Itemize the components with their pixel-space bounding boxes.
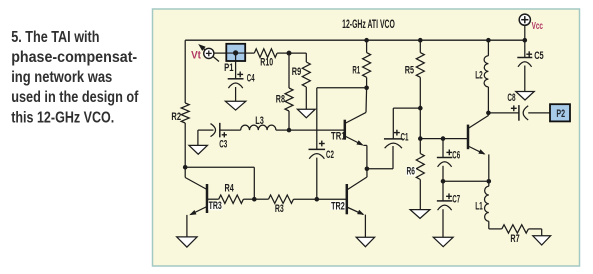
wire node-R3 bbox=[254, 198, 268, 200]
wire Vt-P1 bbox=[214, 52, 226, 54]
ground under R7 bbox=[533, 236, 551, 245]
label P1 bbox=[224, 62, 233, 74]
ground under R6 bbox=[410, 210, 430, 219]
node C6 top bbox=[441, 136, 446, 141]
svg-text:C4: C4 bbox=[247, 72, 255, 84]
svg-text:R1: R1 bbox=[352, 65, 360, 77]
node L2 top bbox=[486, 38, 491, 43]
svg-text:R6: R6 bbox=[407, 166, 415, 178]
capacitor C8 bbox=[511, 105, 528, 121]
wire Q4coll-C8 bbox=[488, 112, 519, 114]
node R1 bottom bbox=[364, 86, 369, 91]
label C7 bbox=[452, 194, 460, 206]
resistor R6 bbox=[416, 154, 424, 180]
label C3 bbox=[219, 138, 227, 150]
label R10 bbox=[260, 56, 273, 68]
wire R3-TR2 bbox=[294, 198, 347, 200]
resistor R3 bbox=[269, 195, 294, 203]
source Vt variable arrow bbox=[198, 44, 219, 62]
label TR2 bbox=[331, 200, 345, 212]
node R5-C1 bbox=[418, 106, 423, 111]
wire C3-L3 bbox=[220, 129, 241, 131]
label R9 bbox=[292, 66, 301, 78]
wire R6-gnd bbox=[419, 180, 421, 210]
node Q4 collector bbox=[486, 111, 491, 116]
resistor R10 bbox=[254, 49, 277, 58]
label R5 bbox=[405, 65, 414, 77]
label C6 bbox=[452, 149, 460, 161]
node C2 bottom bbox=[315, 197, 320, 202]
wire R2-node bbox=[184, 123, 186, 167]
transistor Q4 bbox=[468, 113, 489, 181]
port P1 bbox=[226, 44, 245, 61]
wire R2node-R4R3node bbox=[185, 167, 254, 199]
svg-text:R8: R8 bbox=[276, 94, 285, 106]
svg-text:R2: R2 bbox=[171, 111, 181, 123]
svg-text:C7: C7 bbox=[452, 194, 460, 206]
svg-text:L1: L1 bbox=[475, 201, 483, 213]
label R6 bbox=[407, 166, 415, 178]
wire R4-node bbox=[243, 198, 254, 200]
label C5 bbox=[534, 50, 544, 62]
label L2 bbox=[475, 69, 483, 81]
resistor R8 bbox=[285, 53, 293, 130]
svg-text:C6: C6 bbox=[452, 149, 460, 161]
wire L1-R7 bbox=[489, 228, 502, 230]
node R10-R9-R8 bbox=[287, 51, 292, 56]
label R7 bbox=[510, 233, 519, 245]
label TR1 bbox=[331, 131, 346, 143]
wire R10-node bbox=[277, 52, 289, 54]
svg-text:TR1: TR1 bbox=[331, 131, 346, 143]
svg-text:TR3: TR3 bbox=[209, 200, 222, 212]
transistor TR2 bbox=[347, 169, 367, 238]
wire Vcc supply rail bbox=[185, 39, 525, 41]
resistor R7 bbox=[502, 225, 529, 233]
ground under R9 bbox=[297, 109, 315, 118]
resistor R1 bbox=[363, 40, 371, 88]
wire R6node-C6 bbox=[420, 138, 443, 140]
svg-text:used in the design of: used in the design of bbox=[11, 89, 139, 106]
svg-text:phase-compensat-: phase-compensat- bbox=[11, 49, 137, 66]
svg-text:C5: C5 bbox=[534, 50, 544, 62]
svg-text:C2: C2 bbox=[326, 149, 334, 161]
svg-text:R3: R3 bbox=[275, 203, 284, 215]
wire R9-gnd bbox=[305, 87, 307, 109]
svg-text:5. The TAI with: 5. The TAI with bbox=[11, 29, 99, 46]
label C8 bbox=[507, 92, 515, 104]
node R4-R3 bbox=[252, 197, 257, 202]
label TR3 box bbox=[208, 201, 222, 210]
label R8 bbox=[276, 94, 285, 106]
resistor R4 bbox=[219, 195, 244, 203]
inductor L2 bbox=[484, 40, 488, 113]
svg-text:C3: C3 bbox=[219, 138, 227, 150]
ground under C5 bbox=[516, 92, 534, 101]
capacitor C7 bbox=[437, 181, 453, 237]
capacitor C3 bbox=[211, 123, 227, 138]
label C2 bbox=[326, 149, 334, 161]
wire TR3-R4 bbox=[207, 198, 219, 200]
wire R7-gnd bbox=[528, 229, 541, 236]
node R5 top bbox=[418, 38, 423, 43]
svg-text:TR2: TR2 bbox=[331, 200, 345, 212]
label R2 bbox=[171, 111, 181, 123]
node R1 top bbox=[364, 38, 369, 43]
node Q4 emitter / L1 top bbox=[487, 179, 492, 184]
svg-text:12-GHz ATI VCO: 12-GHz ATI VCO bbox=[342, 17, 395, 31]
svg-text:L2: L2 bbox=[475, 69, 483, 81]
svg-text:this 12-GHz VCO.: this 12-GHz VCO. bbox=[11, 109, 114, 126]
wire C6node-Q4base bbox=[443, 138, 468, 140]
svg-text:Vt: Vt bbox=[191, 50, 201, 62]
svg-text:C1: C1 bbox=[401, 131, 409, 143]
wire L3-node bbox=[276, 129, 289, 131]
label R6 box bbox=[406, 167, 416, 176]
transistor TR1 bbox=[345, 88, 367, 169]
junction Vcc-rail bbox=[523, 38, 528, 43]
ground under C7 bbox=[433, 237, 453, 246]
wire R1-C2 bbox=[317, 88, 367, 150]
wire rail-R2 bbox=[184, 40, 186, 103]
resistor R5 bbox=[416, 40, 424, 108]
label C1 bbox=[401, 131, 409, 143]
node L3-R8-TR1base bbox=[287, 128, 292, 133]
label R4 bbox=[225, 183, 235, 195]
ground under TR2 bbox=[356, 237, 374, 246]
wire C1-R5 bbox=[393, 107, 420, 109]
source Vt circle bbox=[204, 48, 214, 58]
wire TR1em-C1 bbox=[367, 146, 393, 169]
label Vt bbox=[191, 50, 201, 62]
svg-text:Vcc: Vcc bbox=[532, 21, 544, 32]
resistor R2 bbox=[181, 103, 189, 123]
svg-text:L3: L3 bbox=[255, 115, 264, 127]
wire P1-R10 bbox=[245, 52, 254, 54]
label C4 bbox=[247, 72, 255, 84]
resistor R9 bbox=[302, 62, 310, 87]
label L1 bbox=[475, 201, 483, 213]
transistor TR3 bbox=[185, 167, 207, 237]
wire R5-R6 bbox=[419, 108, 421, 153]
svg-text:R5: R5 bbox=[405, 65, 414, 77]
wire C7node-L1node bbox=[443, 180, 489, 182]
ground under C4 bbox=[225, 101, 245, 110]
node TR1 emitter / TR2 collector bbox=[365, 167, 370, 172]
capacitor C4 bbox=[228, 53, 244, 101]
svg-text:R9: R9 bbox=[292, 66, 301, 78]
label TR3 bbox=[209, 200, 222, 212]
svg-text:ing network was: ing network was bbox=[11, 69, 112, 86]
capacitor C2 bbox=[309, 141, 326, 200]
capacitor C6 bbox=[437, 139, 453, 182]
node R2 bottom bbox=[183, 165, 188, 170]
wire C8-P2 bbox=[528, 112, 550, 114]
svg-text:R7: R7 bbox=[510, 233, 519, 245]
svg-text:P2: P2 bbox=[556, 108, 565, 120]
label R3 bbox=[275, 203, 284, 215]
inductor L3 bbox=[241, 125, 276, 130]
wire node-TR1base bbox=[289, 129, 345, 131]
ground under TR3 bbox=[177, 237, 197, 247]
svg-text:R4: R4 bbox=[225, 183, 235, 195]
svg-text:P1: P1 bbox=[224, 62, 233, 74]
power Vcc terminal bbox=[519, 14, 530, 40]
svg-text:C8: C8 bbox=[507, 92, 515, 104]
capacitor C5 bbox=[517, 40, 532, 91]
svg-text:R10: R10 bbox=[260, 56, 273, 68]
capacitor C1 bbox=[384, 108, 403, 148]
label R1 bbox=[352, 65, 360, 77]
label L3 bbox=[255, 115, 264, 127]
label TR2 box bbox=[331, 201, 346, 210]
ground under C3 stub bbox=[189, 145, 207, 154]
port P2 bbox=[550, 104, 570, 121]
wire C3-gnd stub bbox=[198, 130, 214, 145]
node C6-C7 bbox=[441, 179, 446, 184]
label Vcc bbox=[532, 21, 544, 32]
node R6 top bbox=[418, 136, 423, 141]
wire node-R9 bbox=[289, 53, 306, 62]
schematic panel background bbox=[153, 9, 580, 266]
inductor L1 bbox=[484, 181, 488, 229]
